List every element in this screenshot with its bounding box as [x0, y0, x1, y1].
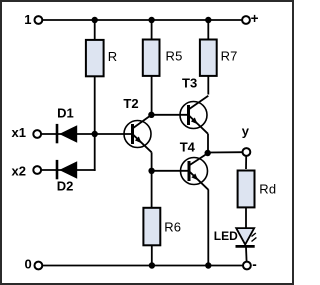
svg-text:x1: x1 [12, 125, 26, 140]
svg-text:R6: R6 [164, 220, 181, 235]
svg-text:-: - [252, 257, 256, 272]
wire R bottom lead to diode node [94, 76, 96, 134]
diode D1 [57, 105, 77, 143]
svg-text:1: 1 [24, 12, 31, 27]
svg-text:T4: T4 [180, 140, 196, 155]
node R6 ground junction [149, 262, 155, 268]
wire T3 base line [151, 114, 188, 116]
svg-text:D1: D1 [57, 105, 74, 120]
svg-text:R7: R7 [221, 48, 238, 63]
terminal y output [242, 123, 251, 156]
transistor T4 [180, 140, 209, 190]
wire y terminal down to Rd [245, 156, 247, 170]
node diode to T2 base junction [92, 131, 98, 137]
wire bottom ground rail [43, 265, 244, 267]
terminal + (top-right supply terminal) [242, 11, 259, 26]
wire x1 input line to T2 base [41, 133, 132, 135]
wire T4 base line [152, 170, 189, 172]
wire T2 emitter down to R6 [151, 152, 153, 208]
transistor T3 [180, 76, 208, 134]
resistor R [86, 40, 117, 76]
node top rail R junction [92, 17, 98, 23]
svg-text:R: R [108, 49, 118, 64]
resistor R5 [143, 40, 183, 76]
node top rail R7 junction [205, 17, 211, 23]
terminal x2 [12, 163, 42, 178]
resistor R7 [200, 40, 238, 76]
resistor Rd [238, 171, 277, 208]
diode D2 [57, 160, 77, 194]
wire Rd bottom lead to LED [245, 208, 247, 228]
svg-text:R5: R5 [166, 48, 183, 63]
LED diode [214, 228, 257, 246]
svg-text:Rd: Rd [259, 182, 276, 197]
resistor R6 [143, 208, 181, 246]
wire R7 bottom lead to T3 collector [207, 76, 209, 95]
wire x2 input line [41, 169, 95, 171]
svg-text:LED: LED [214, 229, 238, 243]
node T4 emitter ground junction [205, 262, 211, 268]
wire R top lead [94, 20, 96, 40]
wire R5 top lead [151, 20, 153, 40]
wire top supply rail [43, 19, 243, 21]
wire node y to output terminal [208, 151, 243, 153]
svg-text:T3: T3 [182, 76, 197, 91]
terminal - (bottom-right ground terminal) [243, 257, 257, 272]
svg-text:x2: x2 [12, 163, 26, 178]
transistor T2 [123, 96, 151, 152]
wire R7 top lead [207, 20, 209, 40]
svg-text:D2: D2 [57, 179, 74, 194]
node top rail R5 junction [148, 17, 154, 23]
wire R5 bottom lead to T2 collector node [151, 76, 153, 115]
terminal x1 [12, 125, 42, 140]
svg-text:y: y [242, 123, 250, 138]
wire T4 emitter down to ground rail [207, 190, 209, 266]
terminal 1 (top-left supply terminal) [24, 12, 42, 27]
node T2 collector / T3 base junction [148, 112, 154, 118]
wire LED cathode to - terminal [245, 247, 248, 262]
wire R6 bottom lead to ground rail [151, 245, 153, 265]
node T4 base junction [148, 168, 154, 174]
svg-text:0: 0 [25, 257, 32, 272]
wire T3 emitter down to node y [207, 134, 209, 153]
node y junction [205, 150, 211, 156]
svg-text:T2: T2 [123, 96, 138, 111]
svg-text:+: + [251, 11, 259, 26]
wire x2 riser to diode node [94, 134, 96, 171]
terminal 0 (bottom-left ground terminal) [25, 257, 43, 272]
